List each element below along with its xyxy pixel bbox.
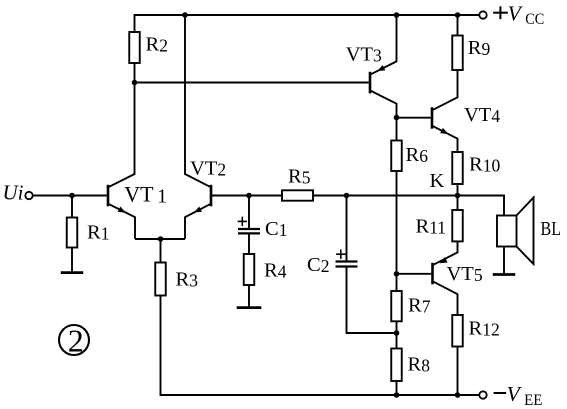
svg-text:R7: R7 (408, 294, 431, 316)
svg-text:C2: C2 (307, 254, 329, 276)
svg-text:R9: R9 (468, 37, 491, 59)
svg-text:R12: R12 (469, 318, 500, 340)
svg-text:V: V (507, 382, 523, 406)
svg-text:VT3: VT3 (346, 44, 382, 66)
svg-text:R4: R4 (264, 259, 287, 281)
svg-text:R5: R5 (288, 165, 311, 187)
svg-text:C1: C1 (265, 218, 287, 240)
svg-text:2: 2 (68, 322, 84, 358)
svg-text:R10: R10 (469, 154, 500, 176)
svg-text:R2: R2 (146, 34, 168, 56)
svg-text:R8: R8 (408, 354, 431, 376)
svg-text:VT5: VT5 (447, 263, 483, 285)
svg-text:VT: VT (124, 181, 154, 206)
svg-text:BL: BL (541, 218, 562, 240)
svg-text:VT2: VT2 (190, 157, 226, 179)
svg-text:EE: EE (524, 392, 542, 409)
svg-text:1: 1 (157, 187, 167, 208)
svg-text:R1: R1 (87, 221, 109, 243)
svg-text:R6: R6 (406, 144, 429, 166)
svg-text:K: K (430, 170, 445, 192)
svg-text:CC: CC (525, 11, 544, 28)
svg-text:V: V (508, 1, 524, 25)
svg-text:R3: R3 (176, 269, 199, 291)
svg-text:Ui: Ui (3, 180, 24, 204)
svg-text:VT4: VT4 (464, 104, 500, 126)
svg-text:R11: R11 (416, 216, 447, 238)
